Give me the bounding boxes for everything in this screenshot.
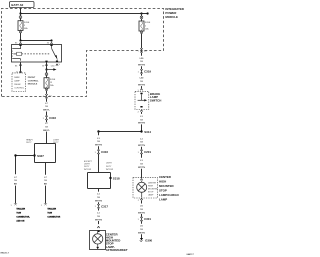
node relay sw pin — [50, 39, 52, 41]
note except light duty w/tow — [84, 161, 93, 171]
relay K1 park lamp relay — [11, 45, 61, 63]
svg-text:LAMP: LAMP — [148, 194, 154, 197]
connector C317 — [95, 204, 109, 210]
svg-text:FUSE: FUSE — [24, 22, 30, 24]
wire stop lamp bus — [99, 131, 142, 133]
ground G300 — [140, 238, 153, 242]
svg-text:WT/TN: WT/TN — [138, 123, 145, 125]
connector C316 left — [43, 116, 57, 123]
pin 85 — [15, 42, 22, 44]
svg-text:SWITCH: SWITCH — [150, 98, 161, 102]
wire L1 label right mid — [138, 138, 145, 149]
wire relay output — [46, 62, 48, 73]
brake lamp switch pin 2 — [138, 110, 143, 114]
integrated power module label — [165, 7, 184, 19]
svg-text:MOUNTED: MOUNTED — [148, 189, 159, 191]
svg-text:AFTERMARKET: AFTERMARKET — [106, 248, 128, 252]
svg-text:RELAY: RELAY — [14, 83, 21, 86]
pin 87 — [42, 64, 47, 68]
chmsl pin 2 — [138, 194, 143, 203]
wire label trailer addon — [14, 177, 18, 204]
node relay coil pin — [19, 39, 21, 41]
wire L1 label mid-left — [95, 132, 102, 150]
svg-text:HIGH: HIGH — [159, 180, 166, 184]
trailer tow connector — [41, 204, 61, 219]
wire arrow feed right — [47, 68, 57, 71]
svg-text:CONTROL: CONTROL — [28, 80, 39, 82]
svg-text:ADD ON: ADD ON — [16, 219, 24, 222]
svg-text:LIGHT: LIGHT — [106, 163, 113, 165]
svg-text:C301: C301 — [144, 217, 151, 221]
svg-text:PARK: PARK — [14, 76, 20, 79]
node relay output junction — [45, 68, 47, 70]
brake lamp switch label — [150, 92, 161, 102]
center high mounted stop lamp aftermarket — [90, 231, 106, 250]
connector ipm exit C8 — [138, 48, 148, 56]
connector ipm exit C7 — [43, 94, 53, 102]
svg-text:STOP: STOP — [148, 192, 154, 194]
wire S327 tap to add-on — [14, 154, 34, 174]
wire split loop left — [35, 144, 56, 175]
svg-text:BK/YL: BK/YL — [43, 110, 50, 112]
connector C319 — [138, 69, 152, 75]
svg-text:S314: S314 — [144, 130, 151, 134]
node batt junction — [19, 12, 21, 14]
svg-text:LAMP/CARGO: LAMP/CARGO — [159, 193, 180, 197]
node fuse2 tap — [140, 12, 142, 14]
wire Z1 label — [138, 206, 145, 217]
svg-text:TRAILER: TRAILER — [47, 207, 56, 210]
note heavy duty — [26, 139, 33, 144]
svg-text:HIGH: HIGH — [148, 186, 154, 188]
fuse F2 20A — [44, 70, 56, 94]
connector C301 — [138, 217, 152, 224]
wire L50 label lower — [138, 78, 145, 89]
svg-text:MODULE: MODULE — [165, 15, 178, 19]
note light duty w/tow — [106, 163, 113, 172]
svg-text:CENTER: CENTER — [148, 183, 157, 185]
svg-text:TRAILER: TRAILER — [16, 207, 25, 210]
integrated power module boundary — [2, 9, 164, 97]
node bus end — [147, 12, 149, 14]
brake lamp switch pin 1 — [138, 88, 143, 92]
svg-text:S318: S318 — [113, 176, 120, 180]
pin 30 — [47, 42, 53, 44]
wire batt feed — [20, 8, 22, 14]
wire label trailer main — [44, 177, 48, 204]
wire Z1 label lower — [138, 226, 145, 238]
svg-text:STOP: STOP — [159, 189, 167, 193]
chmsl label — [159, 175, 180, 202]
wire L1 label to chmsl — [95, 213, 102, 225]
svg-text:EXCEPT: EXCEPT — [84, 161, 93, 163]
svg-text:C316: C316 — [49, 116, 56, 120]
svg-text:C319: C319 — [144, 70, 151, 74]
svg-text:CONTROL: CONTROL — [14, 88, 25, 90]
svg-text:TOW: TOW — [47, 212, 52, 214]
svg-text:W/TOW: W/TOW — [84, 169, 91, 171]
svg-text:046117: 046117 — [187, 253, 195, 256]
svg-text:MOUNTED: MOUNTED — [159, 184, 174, 188]
center high mounted stop lamp box — [133, 178, 159, 198]
wire split loop right — [88, 173, 111, 192]
svg-text:LIGHT: LIGHT — [84, 164, 91, 166]
wire B+ bus — [21, 13, 149, 15]
note light duty — [53, 140, 60, 144]
svg-text:W/TOW: W/TOW — [106, 169, 113, 171]
svg-text:LAMP: LAMP — [159, 198, 167, 202]
svg-text:BK: BK — [14, 184, 18, 186]
wire L7 label lower — [43, 123, 50, 144]
splice S314 — [140, 130, 151, 134]
wire L1 label top — [138, 116, 145, 132]
svg-text:BK: BK — [44, 184, 48, 186]
svg-text:DUTY: DUTY — [106, 166, 112, 168]
FCM pin 11 — [16, 71, 22, 73]
wire L50 label upper — [138, 58, 145, 70]
svg-text:FRONT: FRONT — [28, 77, 36, 79]
splice S318 — [109, 176, 120, 180]
pin 87a — [51, 64, 61, 68]
splice S327 — [33, 154, 44, 158]
svg-text:CONNECTOR: CONNECTOR — [47, 216, 60, 218]
svg-text:LAMP: LAMP — [14, 80, 20, 83]
fuse F3 10A — [139, 14, 151, 49]
wire relay coil to fcm — [20, 62, 22, 71]
svg-text:MODULE: MODULE — [28, 84, 38, 86]
svg-text:CENTER: CENTER — [159, 175, 172, 179]
wire relay coil feed — [21, 40, 52, 42]
wire L1 label to lamp — [138, 160, 145, 178]
front control module label — [28, 77, 39, 86]
trailer tow connector add-on — [11, 204, 31, 223]
svg-text:S327: S327 — [37, 154, 44, 158]
svg-text:DUTY: DUTY — [84, 166, 90, 168]
svg-text:G300: G300 — [145, 238, 152, 242]
svg-text:BATT A0: BATT A0 — [11, 3, 23, 7]
connector C316 right — [95, 150, 109, 173]
front control module box — [12, 73, 26, 92]
svg-text:BK/YL: BK/YL — [43, 130, 50, 132]
brake lamp switch — [135, 91, 149, 109]
svg-text:C317: C317 — [101, 204, 108, 208]
svg-text:TOW: TOW — [16, 212, 21, 214]
chmsl aftermarket pin — [97, 226, 99, 228]
fuse F1 40A — [18, 14, 30, 41]
wire L1 label lower mid — [95, 194, 102, 204]
power source BATT A0 — [10, 2, 35, 8]
node bus left end — [97, 130, 99, 132]
svg-text:DUTY: DUTY — [26, 142, 32, 144]
connector C201 — [138, 150, 152, 158]
svg-text:FUSE: FUSE — [145, 22, 151, 24]
wire L7 label upper — [43, 103, 50, 116]
svg-text:C201: C201 — [144, 150, 151, 154]
svg-text:C316: C316 — [101, 150, 108, 154]
svg-text:WT/TN: WT/TN — [138, 65, 145, 67]
svg-text:8W-81-7: 8W-81-7 — [1, 252, 10, 254]
svg-text:CONNECTOR-: CONNECTOR- — [16, 216, 30, 218]
chmsl aftermarket label — [106, 232, 128, 252]
pin 86 — [15, 64, 22, 68]
svg-text:FUSE: FUSE — [50, 79, 56, 81]
lamp chmsl — [137, 182, 147, 192]
